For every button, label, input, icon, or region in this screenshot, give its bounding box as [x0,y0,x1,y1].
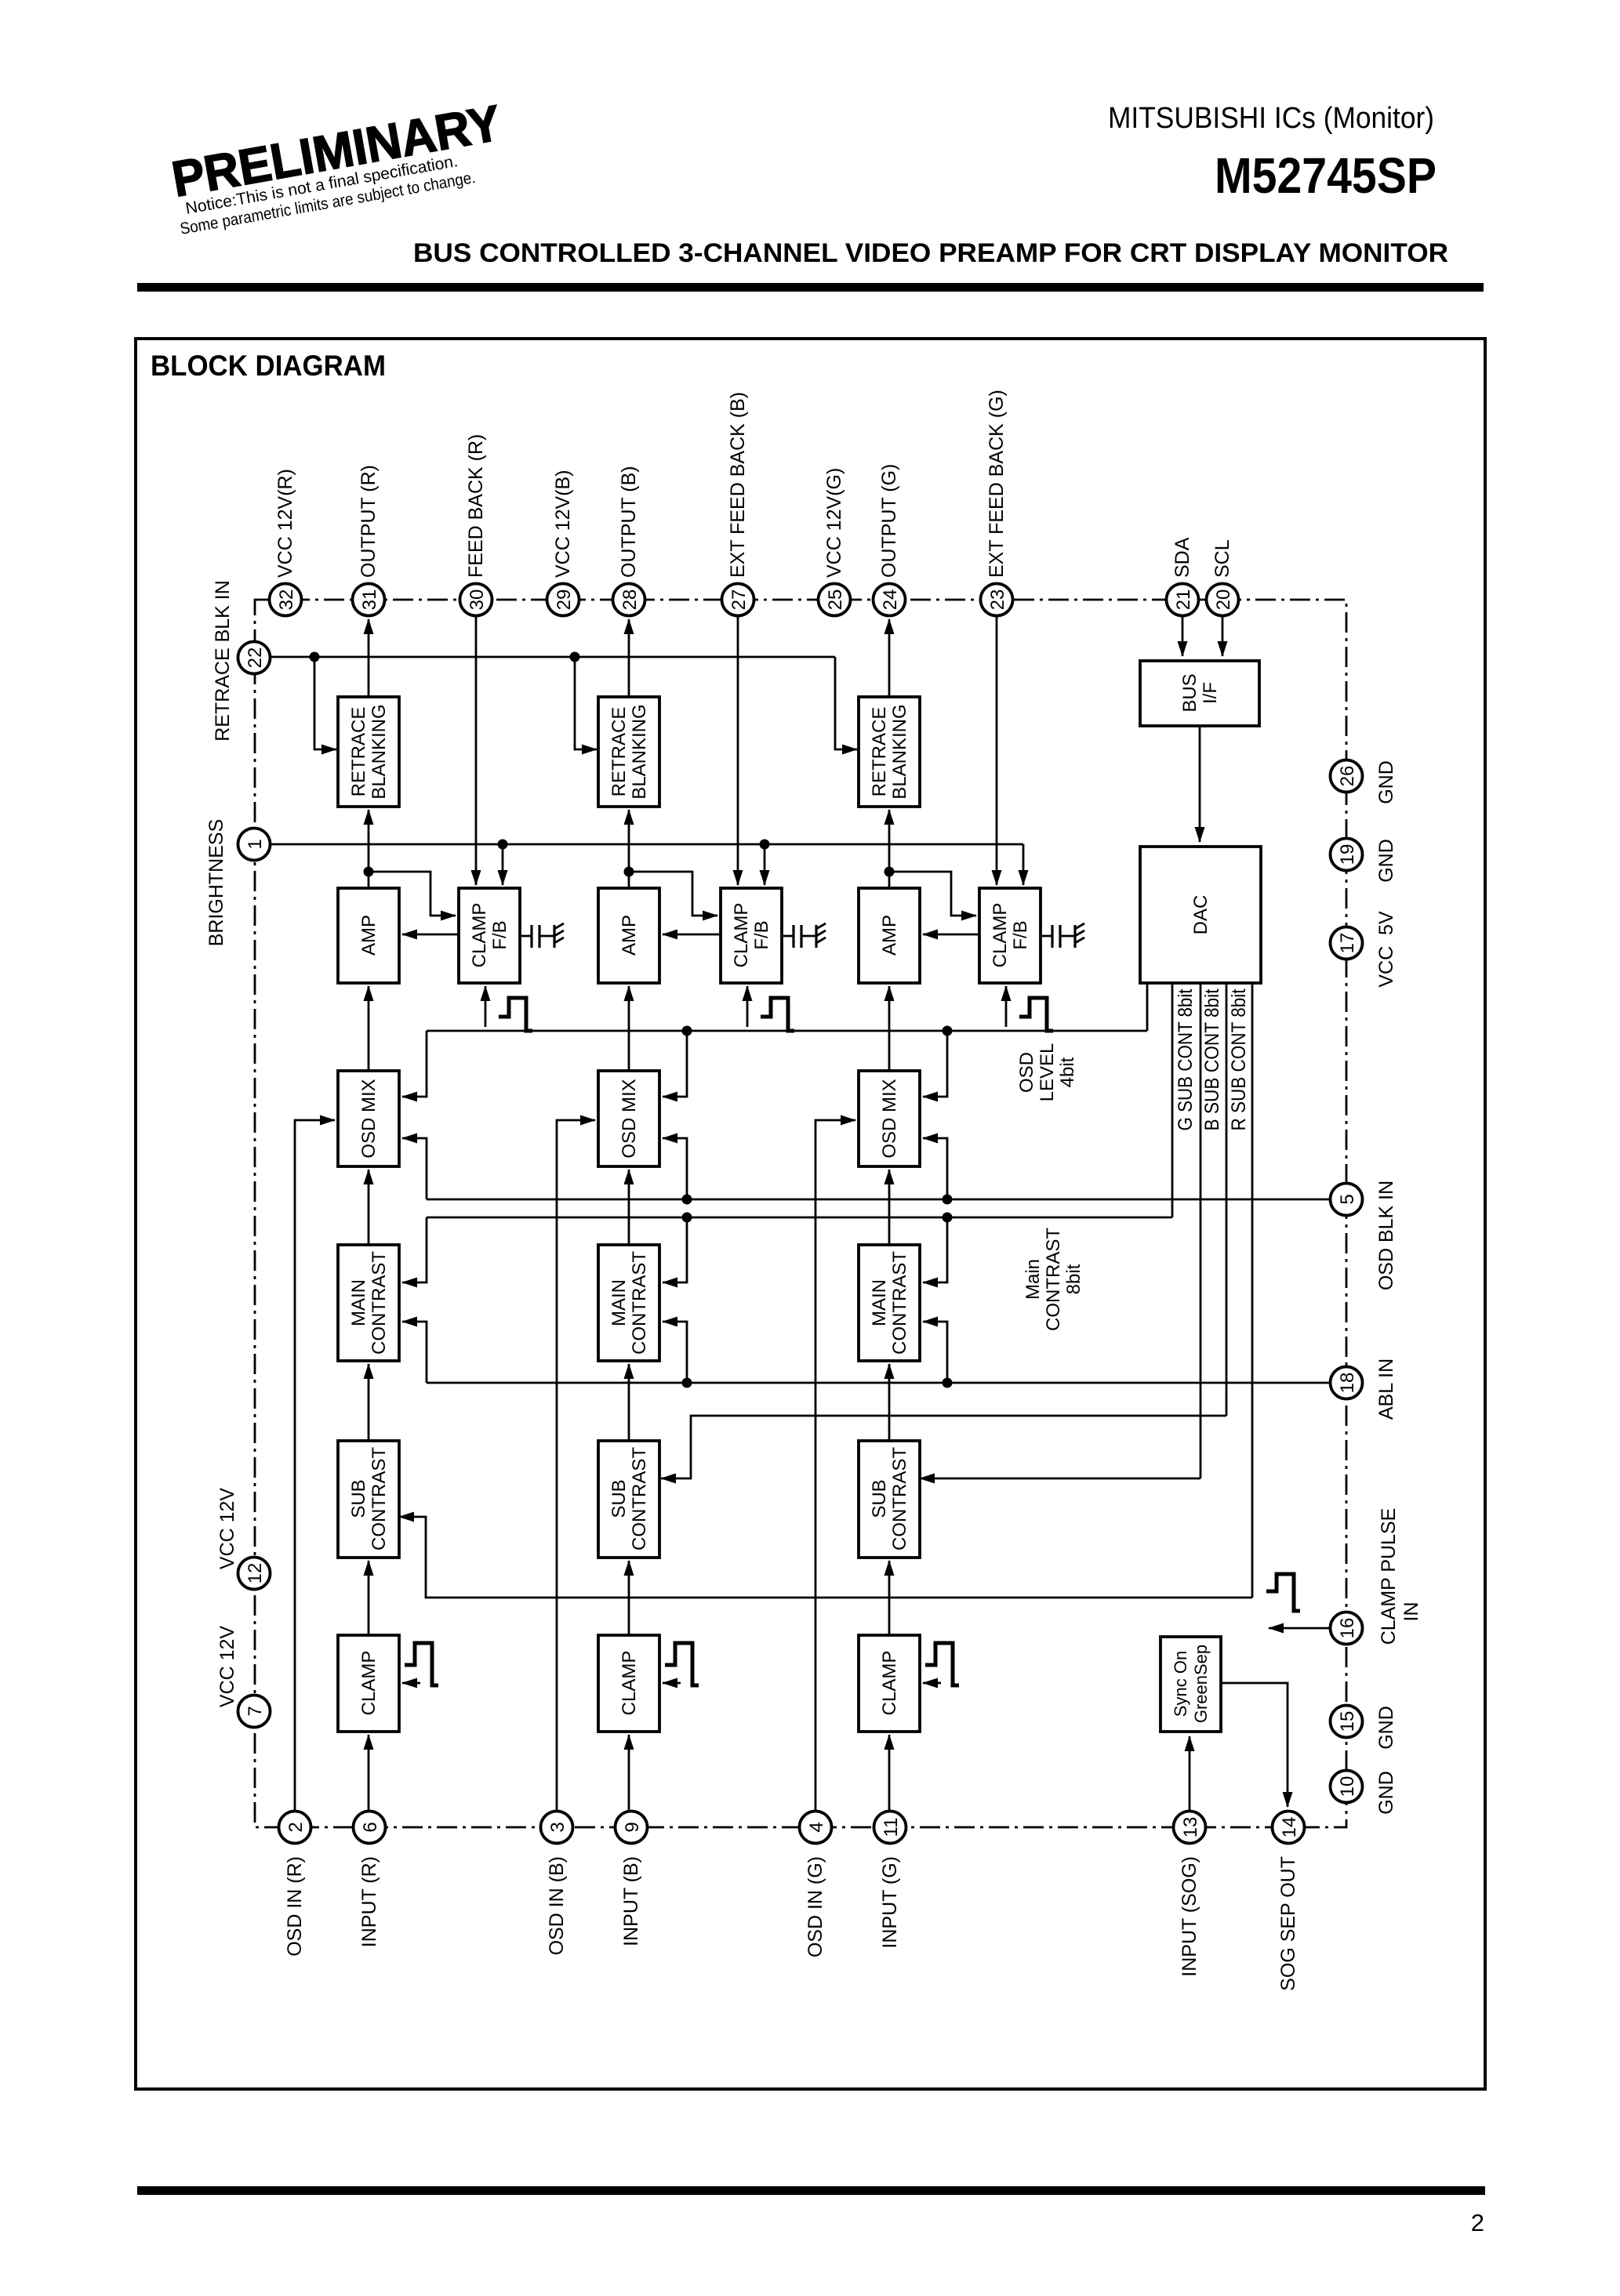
svg-text:31: 31 [359,589,380,611]
svg-text:CLAMP: CLAMP [879,1651,900,1716]
svg-text:ABL IN: ABL IN [1375,1358,1397,1420]
svg-text:OSD IN (R): OSD IN (R) [284,1856,306,1957]
svg-text:7: 7 [245,1706,266,1716]
svg-text:IN: IN [1400,1602,1422,1622]
svg-text:29: 29 [554,589,575,611]
svg-text:B SUB CONT 8bit: B SUB CONT 8bit [1201,988,1223,1130]
svg-text:5: 5 [1337,1194,1358,1204]
svg-text:RETRACE: RETRACE [348,707,369,797]
svg-text:MAIN: MAIN [348,1279,369,1326]
svg-text:BLANKING: BLANKING [629,704,650,799]
svg-text:INPUT (R): INPUT (R) [358,1856,380,1947]
svg-text:M52745SP: M52745SP [1215,147,1437,204]
svg-text:RETRACE: RETRACE [869,707,890,797]
svg-text:BUS CONTROLLED 3-CHANNEL VIDEO: BUS CONTROLLED 3-CHANNEL VIDEO PREAMP FO… [413,238,1448,268]
svg-text:RETRACE BLK IN: RETRACE BLK IN [212,580,234,742]
svg-text:9: 9 [622,1822,643,1832]
svg-text:2: 2 [285,1822,307,1832]
svg-text:BLOCK DIAGRAM: BLOCK DIAGRAM [151,350,386,382]
svg-text:27: 27 [728,589,750,611]
svg-text:MAIN: MAIN [608,1279,630,1326]
svg-text:6: 6 [360,1822,381,1832]
svg-text:VCC 12V: VCC 12V [216,1626,238,1708]
svg-text:DAC: DAC [1190,895,1211,935]
svg-text:17: 17 [1337,933,1358,954]
svg-text:SUB: SUB [348,1479,369,1518]
svg-text:GND: GND [1375,1771,1397,1815]
svg-text:FEED BACK (R): FEED BACK (R) [465,434,487,578]
svg-text:13: 13 [1180,1817,1201,1838]
svg-text:MITSUBISHI ICs (Monitor): MITSUBISHI ICs (Monitor) [1108,102,1434,135]
svg-text:8bit: 8bit [1063,1264,1084,1294]
svg-text:CONTRAST: CONTRAST [369,1251,390,1355]
svg-text:BRIGHTNESS: BRIGHTNESS [205,819,227,947]
svg-text:28: 28 [619,589,641,611]
svg-text:F/B: F/B [1010,920,1031,949]
svg-text:4bit: 4bit [1057,1057,1078,1087]
svg-text:INPUT (B): INPUT (B) [620,1856,642,1946]
svg-text:SOG SEP OUT: SOG SEP OUT [1277,1856,1299,1991]
svg-text:32: 32 [276,589,297,611]
svg-text:F/B: F/B [489,920,510,949]
svg-text:10: 10 [1337,1776,1358,1797]
svg-text:30: 30 [467,589,488,611]
svg-text:CONTRAST: CONTRAST [1043,1228,1064,1331]
svg-text:VCC 12V(R): VCC 12V(R) [274,469,296,578]
svg-text:20: 20 [1213,589,1234,611]
svg-text:15: 15 [1337,1711,1358,1732]
svg-text:MAIN: MAIN [869,1279,890,1326]
svg-text:CLAMP PULSE: CLAMP PULSE [1378,1508,1400,1645]
svg-text:GND: GND [1375,760,1397,804]
svg-text:CONTRAST: CONTRAST [629,1251,650,1355]
svg-text:12: 12 [245,1563,266,1584]
svg-text:Main: Main [1022,1259,1044,1300]
svg-text:22: 22 [245,647,266,669]
svg-text:SUB: SUB [608,1479,630,1518]
svg-text:1: 1 [245,839,266,849]
svg-text:CLAMP: CLAMP [619,1651,640,1716]
svg-text:11: 11 [881,1818,902,1837]
svg-text:BLANKING: BLANKING [889,704,910,799]
svg-text:16: 16 [1337,1618,1358,1639]
svg-text:AMP: AMP [358,915,380,956]
svg-text:EXT FEED BACK (G): EXT FEED BACK (G) [986,390,1008,578]
svg-text:3: 3 [547,1822,568,1832]
svg-text:BLANKING: BLANKING [369,704,390,799]
svg-text:F/B: F/B [751,920,772,949]
svg-text:LEVEL: LEVEL [1037,1043,1058,1102]
svg-text:VCC 12V(B): VCC 12V(B) [552,470,574,578]
svg-text:SDA: SDA [1171,537,1193,578]
svg-text:OUTPUT (G): OUTPUT (G) [878,464,900,578]
svg-text:OSD IN (G): OSD IN (G) [805,1856,826,1957]
svg-text:14: 14 [1279,1817,1300,1838]
svg-text:SCL: SCL [1211,539,1233,578]
svg-text:RETRACE: RETRACE [608,707,630,797]
svg-text:VCC 12V: VCC 12V [216,1488,238,1570]
svg-text:OSD BLK IN: OSD BLK IN [1375,1181,1397,1290]
svg-text:CONTRAST: CONTRAST [889,1251,910,1355]
svg-text:SUB: SUB [869,1479,890,1518]
svg-text:BUS: BUS [1179,673,1200,712]
svg-text:2: 2 [1471,2209,1484,2236]
svg-text:CONTRAST: CONTRAST [369,1447,390,1551]
svg-text:OUTPUT (B): OUTPUT (B) [618,466,640,578]
svg-text:Sync On: Sync On [1171,1651,1190,1717]
svg-text:OSD MIX: OSD MIX [358,1079,380,1158]
svg-text:21: 21 [1173,589,1194,611]
svg-text:23: 23 [987,589,1008,611]
svg-text:GND: GND [1375,839,1397,883]
svg-text:EXT FEED BACK (B): EXT FEED BACK (B) [727,392,749,578]
svg-text:CONTRAST: CONTRAST [629,1447,650,1551]
svg-text:INPUT (SOG): INPUT (SOG) [1179,1856,1200,1977]
svg-text:VCC 12V(G): VCC 12V(G) [823,468,845,578]
svg-text:OSD: OSD [1016,1052,1037,1093]
svg-text:OSD MIX: OSD MIX [619,1079,640,1158]
svg-text:CONTRAST: CONTRAST [889,1447,910,1551]
svg-text:24: 24 [880,589,901,611]
svg-text:VCC 5V: VCC 5V [1375,911,1397,988]
svg-text:CLAMP: CLAMP [358,1651,380,1716]
svg-text:R SUB CONT 8bit: R SUB CONT 8bit [1228,988,1250,1130]
svg-text:AMP: AMP [619,915,640,956]
svg-text:OUTPUT (R): OUTPUT (R) [358,465,380,578]
svg-text:18: 18 [1337,1373,1358,1394]
svg-text:OSD MIX: OSD MIX [879,1079,900,1158]
svg-text:AMP: AMP [879,915,900,956]
svg-text:26: 26 [1337,766,1358,787]
svg-text:I/F: I/F [1200,682,1221,704]
svg-text:19: 19 [1337,844,1358,865]
svg-text:CLAMP: CLAMP [731,903,752,968]
svg-text:25: 25 [825,589,846,611]
svg-text:INPUT (G): INPUT (G) [879,1856,901,1949]
svg-text:GND: GND [1375,1706,1397,1750]
svg-text:G SUB CONT 8bit: G SUB CONT 8bit [1175,988,1197,1130]
svg-text:GreenSep: GreenSep [1191,1645,1211,1723]
svg-text:CLAMP: CLAMP [990,903,1011,968]
svg-text:CLAMP: CLAMP [469,903,490,968]
svg-text:OSD IN (B): OSD IN (B) [546,1856,568,1955]
svg-text:4: 4 [806,1822,827,1832]
